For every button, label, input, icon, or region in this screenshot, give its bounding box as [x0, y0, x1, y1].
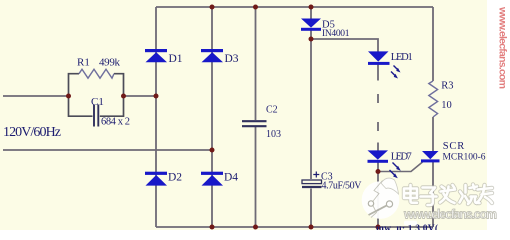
node input1 / left bridge column	[154, 94, 159, 99]
node LED7 cathode / gate junction	[376, 169, 381, 174]
wire dashed LED string	[377, 94, 379, 131]
LED7 emission arrows	[390, 163, 401, 179]
wire left bridge column	[155, 7, 157, 227]
wire SCR gate	[378, 162, 423, 172]
wire AC input line 2	[3, 149, 212, 151]
wire D5 to LED1 branch	[311, 39, 378, 52]
node bottom bus / C3 column	[309, 225, 314, 230]
wire right rail	[432, 7, 434, 227]
wire LED7 anode lead	[377, 143, 379, 151]
node top bus / D5 column	[309, 5, 314, 10]
node input2 / right bridge column	[210, 148, 215, 153]
diode D2	[145, 172, 167, 186]
capacitor C1	[94, 105, 98, 127]
node top bus / D3 column	[210, 5, 215, 10]
node bottom bus / D4 column	[210, 225, 215, 230]
LED1 emission arrows	[391, 66, 401, 79]
LED LED1	[368, 51, 390, 65]
wire LED7 cathode column	[377, 163, 379, 228]
wire bottom bus	[156, 226, 433, 228]
capacitor C3	[302, 180, 322, 187]
resistor R1	[79, 69, 114, 78]
wire top bus	[156, 6, 433, 8]
diode D4	[201, 172, 223, 186]
wire right bridge column	[211, 7, 213, 227]
wire RC loop frame	[69, 74, 124, 117]
diode D3	[201, 49, 223, 62]
svg-text:www.elecfans.com: www.elecfans.com	[497, 6, 509, 89]
diode D5	[301, 19, 321, 31]
resistor R3	[429, 81, 438, 117]
LED LED7	[368, 150, 389, 162]
node bottom bus / C2 column	[253, 225, 258, 230]
C3 plus polarity mark	[313, 172, 319, 178]
wire LED1 cathode lead	[377, 65, 379, 81]
wire C2 column	[255, 7, 257, 227]
node top bus / C2 column	[253, 5, 258, 10]
node RC left terminal	[66, 94, 71, 99]
SCR Q1	[421, 151, 440, 162]
node D5 cathode junction	[309, 37, 314, 42]
svg-text:www.elecfans.com: www.elecfans.com	[403, 208, 497, 222]
capacitor C2	[242, 121, 267, 126]
node bottom bus / LED7 column	[376, 225, 381, 230]
node RC right terminal	[121, 94, 126, 99]
diode D1	[145, 49, 167, 62]
wire D5/C3 column	[310, 7, 312, 227]
wire AC input line 1	[3, 95, 156, 97]
